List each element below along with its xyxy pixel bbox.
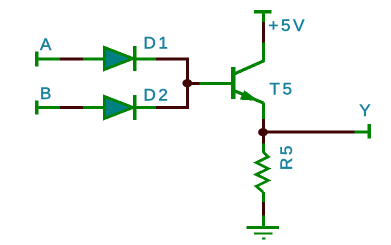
wire A to D1 (60, 58, 83, 61)
terminal A (35, 52, 61, 67)
wire B to D2 (60, 106, 83, 109)
terminal B (35, 100, 61, 114)
transistor T5 (200, 43, 265, 120)
wire R5 to ground (262, 202, 265, 216)
diode D1 (83, 46, 157, 71)
wire node J1 to base (188, 82, 200, 85)
svg-text:Y: Y (359, 101, 373, 120)
svg-text:T5: T5 (270, 80, 295, 99)
svg-text:B: B (40, 84, 54, 103)
power terminal +5V (254, 10, 272, 22)
node junction J2 (258, 128, 268, 136)
svg-text:A: A (40, 35, 54, 54)
wire D2 to node (right then up) (156, 83, 189, 109)
wire node J2 to Y (263, 131, 354, 134)
wire D1 to node (right then down) (156, 58, 189, 84)
wire +5V to collector (262, 22, 265, 43)
svg-text:D2: D2 (144, 86, 171, 105)
svg-text:R5: R5 (277, 143, 296, 170)
resistor R5 (256, 144, 268, 203)
node junction J1 (182, 79, 192, 87)
svg-text:D1: D1 (144, 34, 171, 53)
ground (246, 216, 278, 240)
diode D2 (83, 95, 157, 120)
wire emitter to node J2 (262, 119, 265, 144)
svg-text:+5V: +5V (269, 16, 308, 35)
terminal Y (354, 124, 371, 139)
